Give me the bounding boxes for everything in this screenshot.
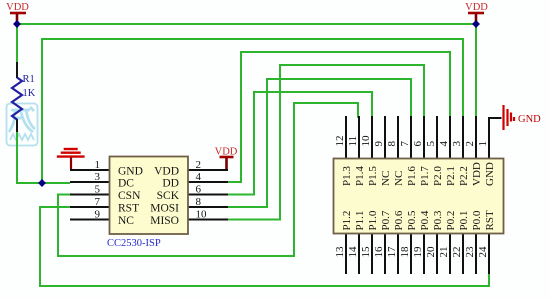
svg-text:23: 23	[464, 246, 476, 258]
svg-text:P0.0: P0.0	[471, 210, 483, 230]
svg-text:P1.2: P1.2	[341, 211, 353, 231]
svg-text:18: 18	[399, 246, 411, 258]
svg-text:P0.4: P0.4	[419, 210, 431, 230]
svg-text:NC: NC	[118, 215, 134, 227]
svg-text:P1.3: P1.3	[341, 166, 353, 186]
svg-text:RST: RST	[118, 203, 139, 215]
svg-text:P0.3: P0.3	[432, 210, 444, 230]
svg-text:12: 12	[334, 136, 346, 147]
svg-text:17: 17	[386, 246, 398, 258]
svg-text:6: 6	[412, 141, 424, 147]
svg-text:16: 16	[373, 246, 385, 258]
svg-text:15: 15	[360, 246, 372, 258]
svg-text:1: 1	[477, 141, 489, 147]
svg-text:P1.5: P1.5	[367, 166, 379, 186]
svg-text:5: 5	[425, 141, 437, 147]
svg-text:P0.5: P0.5	[406, 210, 418, 230]
svg-text:10: 10	[196, 209, 208, 221]
svg-text:VDD: VDD	[6, 2, 29, 13]
svg-text:MOSI: MOSI	[150, 203, 179, 215]
svg-text:2: 2	[464, 141, 476, 147]
svg-text:2: 2	[196, 159, 202, 171]
svg-text:14: 14	[347, 246, 359, 258]
svg-text:P1.6: P1.6	[406, 166, 418, 186]
svg-text:5: 5	[95, 184, 101, 196]
svg-text:P0.7: P0.7	[380, 210, 392, 230]
svg-text:P0.1: P0.1	[458, 211, 470, 231]
svg-text:P1.0: P1.0	[367, 210, 379, 230]
svg-text:P1.7: P1.7	[419, 166, 431, 186]
svg-text:13: 13	[334, 246, 346, 258]
svg-text:7: 7	[399, 141, 411, 147]
svg-text:10: 10	[360, 135, 372, 147]
svg-text:3: 3	[451, 141, 463, 147]
svg-text:P2.0: P2.0	[432, 166, 444, 186]
svg-text:4: 4	[438, 141, 450, 147]
svg-text:VDD: VDD	[154, 166, 179, 178]
svg-text:R1: R1	[23, 74, 35, 85]
svg-text:VDD: VDD	[465, 2, 488, 13]
svg-text:P1.4: P1.4	[354, 166, 366, 186]
svg-text:20: 20	[425, 246, 437, 258]
svg-text:11: 11	[347, 136, 359, 147]
svg-text:19: 19	[412, 246, 424, 258]
svg-text:9: 9	[95, 209, 101, 221]
svg-text:1: 1	[95, 159, 101, 171]
svg-text:9: 9	[373, 141, 385, 147]
svg-text:P0.2: P0.2	[445, 211, 457, 231]
svg-text:3: 3	[95, 171, 101, 183]
svg-text:MISO: MISO	[150, 215, 179, 227]
svg-text:21: 21	[438, 247, 450, 258]
svg-text:RST: RST	[484, 210, 496, 230]
svg-text:24: 24	[477, 246, 489, 258]
svg-text:GND: GND	[484, 162, 496, 186]
svg-text:CSN: CSN	[118, 190, 141, 202]
svg-text:GND: GND	[518, 114, 541, 125]
svg-text:22: 22	[451, 247, 463, 258]
svg-text:P2.1: P2.1	[445, 166, 457, 186]
svg-text:1K: 1K	[23, 88, 36, 99]
svg-text:CC2530-ISP: CC2530-ISP	[107, 238, 161, 249]
svg-text:GND: GND	[118, 166, 143, 178]
svg-text:P1.1: P1.1	[354, 211, 366, 231]
svg-text:8: 8	[196, 196, 202, 208]
svg-text:NC: NC	[393, 171, 405, 186]
svg-text:NC: NC	[380, 171, 392, 186]
svg-text:4: 4	[196, 171, 202, 183]
svg-text:P2.2: P2.2	[458, 166, 470, 186]
svg-text:SCK: SCK	[157, 190, 180, 202]
svg-text:6: 6	[196, 184, 202, 196]
svg-text:DC: DC	[118, 178, 134, 190]
svg-text:P0.6: P0.6	[393, 210, 405, 230]
svg-text:VDD: VDD	[215, 147, 238, 158]
svg-text:DD: DD	[162, 178, 179, 190]
svg-text:7: 7	[95, 196, 101, 208]
svg-text:8: 8	[386, 141, 398, 147]
svg-text:VDD: VDD	[471, 162, 483, 186]
